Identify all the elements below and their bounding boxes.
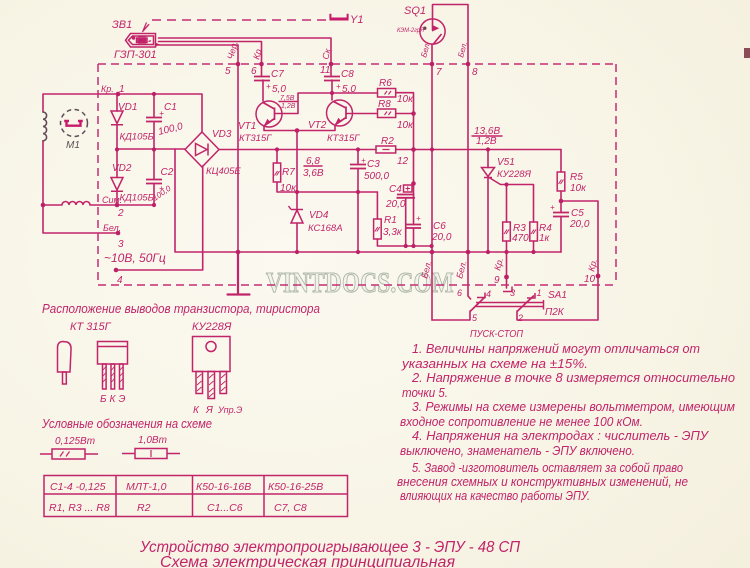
svg-text:10к: 10к: [280, 183, 297, 194]
svg-text:VD4: VD4: [309, 210, 329, 221]
svg-text:Я: Я: [205, 405, 213, 416]
svg-text:влияющих на качество работы: влияющих на качество работы ЭПУ.: [400, 488, 590, 503]
svg-text:VT2: VT2: [308, 120, 327, 131]
svg-text:20,0: 20,0: [569, 219, 590, 230]
svg-text:R8: R8: [378, 99, 391, 110]
svg-text:П2К: П2К: [545, 307, 565, 318]
svg-text:Расположение выводов транзис: Расположение выводов транзистора, тирист…: [42, 302, 320, 316]
svg-text:6: 6: [251, 66, 257, 77]
svg-text:указанных на схеме на ±15%: указанных на схеме на ±15%.: [401, 356, 588, 371]
svg-text:7: 7: [436, 67, 442, 78]
svg-text:8: 8: [472, 67, 478, 78]
svg-text:КЭМ-2грЯ: КЭМ-2грЯ: [397, 27, 424, 34]
svg-text:R1: R1: [384, 215, 397, 226]
svg-text:КУ228Я: КУ228Я: [192, 321, 232, 333]
svg-text:КУ228Я: КУ228Я: [497, 169, 532, 180]
svg-text:3: 3: [510, 288, 515, 298]
svg-text:+: +: [416, 214, 421, 223]
svg-text:ПУСК-СТОП: ПУСК-СТОП: [470, 328, 523, 340]
svg-text:R2: R2: [381, 136, 394, 147]
svg-text:1,2В: 1,2В: [476, 136, 497, 147]
svg-text:Бел.: Бел.: [103, 223, 121, 233]
svg-text:+: +: [550, 203, 555, 212]
svg-text:КЦ405Е: КЦ405Е: [206, 166, 241, 177]
svg-text:ЗВ1: ЗВ1: [112, 19, 132, 31]
svg-text:+: +: [361, 156, 366, 165]
svg-text:входное сопротивление не ме: входное сопротивление не менее 100 кОм.: [400, 414, 643, 429]
svg-text:С1: С1: [164, 102, 177, 113]
svg-text:10к: 10к: [397, 94, 414, 105]
svg-text:С2: С2: [161, 167, 174, 178]
svg-text:1: 1: [537, 288, 542, 298]
svg-text:С6: С6: [433, 221, 446, 232]
svg-text:470: 470: [512, 233, 529, 244]
svg-text:ГЗП-301: ГЗП-301: [114, 49, 157, 61]
svg-text:20,0: 20,0: [385, 199, 406, 210]
svg-text:6: 6: [457, 288, 462, 298]
svg-text:КД105Б: КД105Б: [120, 193, 154, 204]
svg-text:SA1: SA1: [548, 290, 567, 301]
svg-text:1,2В: 1,2В: [281, 103, 296, 110]
svg-text:КТ315Г: КТ315Г: [239, 133, 272, 144]
svg-text:R1, R3 ... R8: R1, R3 ... R8: [49, 502, 110, 514]
svg-text:3,3к: 3,3к: [383, 227, 403, 238]
svg-text:М1: М1: [66, 140, 80, 151]
svg-text:2. Напряжение в точке 8 из: 2. Напряжение в точке 8 измеряется относ…: [411, 370, 735, 385]
svg-text:Б: Б: [100, 394, 107, 405]
svg-text:VT1: VT1: [238, 121, 256, 132]
svg-text:11: 11: [320, 65, 330, 76]
svg-text:500,0: 500,0: [364, 171, 389, 182]
svg-text:Упр.Э: Упр.Э: [217, 405, 242, 415]
svg-text:Условные обозначения на схе: Условные обозначения на схеме: [41, 417, 212, 431]
svg-text:3,6В: 3,6В: [303, 168, 324, 179]
svg-text:+: +: [159, 108, 164, 118]
svg-text:1к: 1к: [539, 233, 551, 244]
svg-text:10: 10: [584, 274, 596, 285]
svg-text:КТ315Г: КТ315Г: [327, 133, 360, 144]
svg-text:0,125Вт: 0,125Вт: [55, 436, 95, 447]
svg-text:V51: V51: [497, 157, 515, 168]
svg-text:20,0: 20,0: [431, 232, 452, 243]
svg-text:Кр.: Кр.: [101, 84, 114, 94]
svg-text:10к: 10к: [570, 183, 587, 194]
svg-text:VD2: VD2: [112, 163, 132, 174]
svg-text:КД105Б: КД105Б: [120, 132, 154, 143]
svg-text:5. Завод -изготовитель оставл: 5. Завод -изготовитель оставляет за собо…: [412, 460, 683, 475]
svg-text:12: 12: [397, 156, 409, 167]
svg-text:С3: С3: [367, 159, 380, 170]
svg-text:С4: С4: [389, 184, 402, 195]
svg-text:SQ1: SQ1: [404, 5, 426, 17]
svg-text:Э: Э: [119, 394, 126, 405]
svg-text:выключено, знаменатель - ЭПУ: выключено, знаменатель - ЭПУ включено.: [400, 443, 635, 458]
svg-text:1. Величины напряжений могут: 1. Величины напряжений могут отличаться …: [412, 341, 700, 356]
svg-text:К50-16-25В: К50-16-25В: [268, 481, 323, 493]
svg-text:С7, С8: С7, С8: [274, 502, 307, 514]
svg-text:2: 2: [517, 313, 523, 323]
svg-text:внесения схемных и конструк: внесения схемных и конструктивных измене…: [397, 474, 688, 489]
svg-text:+: +: [266, 82, 271, 91]
svg-text:5: 5: [225, 66, 231, 77]
svg-text:5,0: 5,0: [272, 84, 286, 95]
svg-text:4. Напряжения на электродах: 4. Напряжения на электродах : числитель …: [412, 428, 710, 443]
svg-text:К50-16-16В: К50-16-16В: [196, 481, 251, 493]
svg-text:2: 2: [117, 208, 124, 219]
svg-text:3: 3: [118, 239, 124, 250]
svg-text:Y1: Y1: [350, 14, 363, 26]
svg-text:3. Режимы на схеме измерены: 3. Режимы на схеме измерены вольтметром,…: [412, 399, 735, 414]
svg-text:С5: С5: [571, 208, 584, 219]
svg-text:1: 1: [119, 84, 125, 95]
svg-text:+: +: [336, 82, 341, 91]
svg-text:R5: R5: [570, 172, 583, 183]
svg-text:С7: С7: [271, 69, 284, 80]
svg-text:R6: R6: [379, 78, 392, 89]
svg-text:МЛТ-1,0: МЛТ-1,0: [126, 481, 167, 493]
svg-text:1,0Вт: 1,0Вт: [138, 435, 167, 446]
svg-text:~10В, 50Гц: ~10В, 50Гц: [104, 251, 166, 265]
svg-text:Схема электрическая принципи: Схема электрическая принципиальная: [160, 554, 455, 568]
svg-text:10к: 10к: [397, 120, 414, 131]
svg-text:4: 4: [117, 275, 123, 286]
svg-text:9: 9: [494, 275, 500, 286]
svg-text:VD3: VD3: [212, 129, 232, 140]
svg-text:4: 4: [486, 289, 491, 299]
svg-text:VD1: VD1: [118, 102, 137, 113]
svg-text:С1...С6: С1...С6: [207, 502, 243, 514]
svg-text:КС168А: КС168А: [308, 223, 343, 234]
svg-text:С1-4 -0,125: С1-4 -0,125: [50, 481, 106, 493]
svg-text:R2: R2: [137, 502, 151, 514]
svg-text:R7: R7: [282, 167, 295, 178]
svg-text:С8: С8: [341, 69, 354, 80]
svg-text:КТ 315Г: КТ 315Г: [70, 321, 112, 333]
svg-text:5,0: 5,0: [342, 84, 356, 95]
svg-text:+: +: [159, 183, 164, 193]
svg-text:точки 5.: точки 5.: [402, 385, 448, 400]
